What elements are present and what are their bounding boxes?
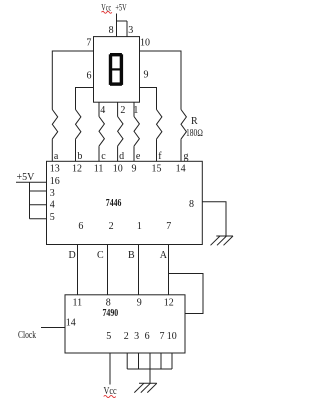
resistor R value label <box>186 116 203 139</box>
svg-text:14: 14 <box>66 318 76 329</box>
wire resistor d to 7446 pin 10 <box>117 146 119 161</box>
ground (7446 pin 8) <box>211 236 234 245</box>
wire display pin 6 to resistor b <box>76 88 94 110</box>
svg-text:D: D <box>69 250 76 261</box>
wire display pin 3 <box>126 21 128 37</box>
svg-text:2: 2 <box>124 331 129 342</box>
wire 7490 pin 3 to ground bus <box>138 353 140 369</box>
svg-text:4: 4 <box>100 105 105 116</box>
wire resistor g to 7446 pin 14 <box>180 139 182 161</box>
wire A feedback loop to 7490 right side <box>169 274 204 314</box>
node C label <box>97 250 104 261</box>
wire +5V bus to 7446 pin 5 <box>30 218 47 220</box>
resistor g (R 180 ohm) <box>181 110 186 140</box>
svg-text:10: 10 <box>140 38 150 49</box>
spellcheck squiggle under bottom Vcc <box>104 395 116 397</box>
pin number 9 (display) <box>144 70 149 81</box>
svg-text:6: 6 <box>145 331 150 342</box>
wire 7446 pin 8 to ground <box>202 202 226 236</box>
node e label <box>136 151 141 162</box>
svg-text:7: 7 <box>166 221 171 232</box>
svg-text:2: 2 <box>120 105 125 116</box>
7446 left pin numbers 16 3 4 5 <box>50 176 60 223</box>
wire C: 7446 pin 2 to 7490 pin 8 <box>107 245 109 295</box>
pin number 8 (7446) <box>189 199 194 210</box>
svg-text:8: 8 <box>106 297 111 308</box>
node Vcc label (top) <box>101 4 126 14</box>
wire +5V bus to 7446 pin 4 <box>30 204 47 206</box>
pin number 14 (7490) <box>66 318 76 329</box>
wire display Vcc bar joining pins 8 and 3 <box>117 20 128 22</box>
wire Vcc supply to display pin 8 <box>116 14 118 37</box>
svg-text:7446: 7446 <box>106 198 122 209</box>
wire 7490 pin 7 to ground bus <box>160 353 162 369</box>
node B label <box>128 250 135 261</box>
svg-text:10: 10 <box>167 331 177 342</box>
node a label <box>54 151 59 162</box>
svg-text:7: 7 <box>86 38 91 49</box>
svg-text:+5V: +5V <box>17 172 36 183</box>
svg-text:f: f <box>158 151 162 162</box>
wire display pin 2 to resistor d <box>117 102 119 116</box>
svg-text:5: 5 <box>50 212 55 223</box>
pin number 3 (display) <box>128 25 133 36</box>
node d label <box>119 151 124 162</box>
svg-text:8: 8 <box>109 25 114 36</box>
wire display pin 10 to resistor g <box>140 51 182 110</box>
svg-text:180Ω: 180Ω <box>186 128 203 139</box>
svg-text:3: 3 <box>128 25 133 36</box>
svg-text:R: R <box>191 116 198 127</box>
wire D: 7446 pin 6 to 7490 pin 11 <box>77 245 79 295</box>
svg-text:3: 3 <box>50 188 55 199</box>
svg-text:11: 11 <box>94 163 104 174</box>
wire 7490 pin 2 to ground bus <box>126 353 128 369</box>
svg-text:14: 14 <box>176 163 186 174</box>
svg-text:3: 3 <box>134 331 139 342</box>
IC U2 7490 box <box>65 295 185 353</box>
node A label <box>160 250 168 261</box>
svg-text:10: 10 <box>113 163 123 174</box>
pin number 1 (display) <box>133 105 138 116</box>
wire display pin 1 to resistor e <box>133 102 135 116</box>
wire resistor b to 7446 pin 12 <box>75 139 77 161</box>
wire 7490 pin 6 to ground bus <box>149 353 151 369</box>
ground stem <box>149 369 151 383</box>
pin number 8 (display) <box>109 25 114 36</box>
wire Clock to 7490 pin 14 <box>41 327 65 329</box>
svg-text:12: 12 <box>72 163 82 174</box>
node Clock label <box>18 330 36 341</box>
resistor a <box>52 110 57 140</box>
pin number 4 (display) <box>100 105 105 116</box>
node f label <box>158 151 162 162</box>
wire display pin 7 to resistor a <box>52 51 93 110</box>
wire B: 7446 pin 1 to 7490 pin 9 <box>138 245 140 295</box>
svg-text:A: A <box>160 250 168 261</box>
pin number 7 (display) <box>86 38 91 49</box>
7490 bottom pin numbers 5 2 3 6 7 10 <box>106 331 177 342</box>
svg-text:11: 11 <box>73 297 83 308</box>
node c label <box>101 151 106 162</box>
+5V bus vertical <box>29 182 31 219</box>
svg-text:c: c <box>101 151 106 162</box>
node g label <box>184 151 189 162</box>
resistor e <box>134 117 139 147</box>
wire resistor c to 7446 pin 11 <box>98 146 100 161</box>
svg-text:7: 7 <box>160 331 165 342</box>
svg-text:6: 6 <box>87 71 92 82</box>
svg-text:9: 9 <box>144 70 149 81</box>
7-segment display U1 box <box>94 37 140 103</box>
svg-text:5: 5 <box>106 331 111 342</box>
svg-text:Clock: Clock <box>18 330 36 341</box>
IC U1 7446 box <box>47 161 203 244</box>
svg-text:B: B <box>128 250 135 261</box>
wire resistor f to 7446 pin 15 <box>156 139 158 161</box>
svg-text:4: 4 <box>50 200 55 211</box>
7446 label <box>106 198 122 209</box>
svg-text:b: b <box>77 151 82 162</box>
7446 top pin numbers 13 12 11 10 9 15 14 <box>50 163 186 174</box>
svg-text:e: e <box>136 151 141 162</box>
resistor f <box>157 110 162 140</box>
wire A: 7446 pin 7 to 7490 pin 12 <box>168 245 170 295</box>
resistor d <box>118 117 123 147</box>
pin number 6 (display) <box>87 71 92 82</box>
node Vcc label (bottom) <box>104 386 118 397</box>
pin number 10 (display) <box>140 38 150 49</box>
svg-text:g: g <box>184 151 189 162</box>
svg-text:C: C <box>97 250 104 261</box>
ground (7490) <box>134 383 157 392</box>
svg-text:13: 13 <box>50 163 60 174</box>
wire +5V to 7446 pin 16 <box>16 181 47 183</box>
resistor c <box>99 117 104 147</box>
wire 7490 pin 10 to ground bus <box>171 353 173 369</box>
svg-text:d: d <box>119 151 124 162</box>
wire resistor e to 7446 pin 9 <box>133 146 135 161</box>
spellcheck squiggle under top Vcc <box>102 11 112 13</box>
wire 7490 pin 5 to Vcc <box>109 353 111 385</box>
svg-text:12: 12 <box>164 297 174 308</box>
svg-text:8: 8 <box>189 199 194 210</box>
svg-text:6: 6 <box>78 221 83 232</box>
7-segment digit 8 <box>109 53 123 86</box>
7446 bottom pin numbers 6 2 1 7 <box>78 221 171 232</box>
resistor b <box>76 110 81 140</box>
wire +5V bus to 7446 pin 3 <box>30 190 47 192</box>
node b label <box>77 151 82 162</box>
pin number 2 (display) <box>120 105 125 116</box>
node D label <box>69 250 76 261</box>
svg-text:a: a <box>54 151 59 162</box>
svg-text:1: 1 <box>137 221 142 232</box>
svg-text:7490: 7490 <box>103 308 119 319</box>
svg-text:9: 9 <box>137 297 142 308</box>
wire display pin 4 to resistor c <box>98 102 100 116</box>
7490 label <box>103 308 119 319</box>
ground bus horizontal <box>127 368 172 370</box>
7490 top pin numbers 11 8 9 12 <box>73 297 174 308</box>
wire resistor a to 7446 pin 13 <box>51 139 53 161</box>
svg-text:9: 9 <box>132 163 137 174</box>
svg-text:15: 15 <box>152 163 162 174</box>
node +5V label (left) <box>17 172 36 183</box>
wire display pin 9 to resistor f <box>140 88 157 110</box>
svg-text:16: 16 <box>50 176 60 187</box>
svg-text:+5V: +5V <box>115 4 126 14</box>
svg-text:2: 2 <box>109 221 114 232</box>
